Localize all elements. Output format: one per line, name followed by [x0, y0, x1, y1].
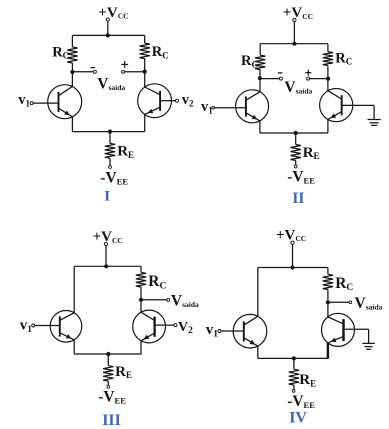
- wire top rail (III): [74, 265, 141, 267]
- wire bottom rail (II): [260, 132, 328, 134]
- terminal +Vcc (III): [104, 242, 107, 245]
- wire to minus terminal (II): [260, 78, 280, 80]
- svg-text:v2: v2: [182, 92, 194, 109]
- wire RC to collector (IV): [327, 290, 329, 317]
- wire right branch to RC (I): [144, 35, 146, 43]
- minus sign (II): [278, 72, 282, 74]
- svg-text:Vsaída: Vsaída: [171, 292, 199, 309]
- svg-text:Vsaída: Vsaída: [284, 79, 312, 96]
- plus sign (II): [305, 70, 311, 76]
- wire left branch collector (III): [73, 266, 75, 313]
- wire left emitter (I): [71, 117, 73, 132]
- svg-text:IV: IV: [289, 410, 307, 427]
- wire RE to Vee terminal (II): [295, 161, 297, 166]
- resistor RC (IV): [323, 274, 333, 289]
- svg-text:RC: RC: [152, 44, 169, 60]
- junction emitters (I): [108, 130, 112, 134]
- resistor RE (I): [105, 143, 115, 158]
- wire right emitter (I): [144, 114, 146, 131]
- wire Vcc stem (IV): [292, 244, 294, 267]
- wire right RC to collector (II): [327, 66, 329, 91]
- wire left RC to collector (I): [71, 63, 73, 87]
- terminal -Vee (III): [107, 385, 110, 388]
- svg-text:+VCC: +VCC: [283, 5, 313, 21]
- svg-text:v1: v1: [20, 317, 33, 335]
- junction output node (IV): [326, 300, 330, 304]
- svg-text:-VEE: -VEE: [100, 170, 128, 187]
- wire right branch to RC (IV): [327, 268, 329, 275]
- terminal Vsaida minus (I): [93, 70, 96, 73]
- wire RE to Vee terminal (IV): [293, 385, 295, 390]
- resistor RC right (II): [323, 52, 333, 66]
- junction Vcc-rail (I): [106, 33, 110, 37]
- terminal v1 (III): [32, 324, 35, 327]
- svg-text:v1: v1: [201, 99, 213, 116]
- svg-text:+VCC: +VCC: [276, 228, 306, 244]
- terminal v2 (III): [174, 324, 177, 327]
- svg-text:RC: RC: [335, 275, 353, 293]
- svg-text:RC: RC: [148, 273, 166, 291]
- resistor RE (II): [291, 145, 301, 161]
- terminal +Vcc (II): [293, 19, 296, 22]
- wire bottom rail (IV): [258, 357, 329, 359]
- terminal v2 (I): [176, 99, 179, 102]
- svg-text:RC: RC: [335, 50, 352, 66]
- junction right collector node (II): [326, 77, 330, 81]
- terminal Vsaida (IV): [349, 301, 352, 304]
- svg-text:v1: v1: [18, 92, 30, 109]
- svg-text:+VCC: +VCC: [98, 5, 128, 21]
- terminal -Vee (I): [109, 166, 112, 169]
- svg-text:II: II: [292, 190, 304, 207]
- wire rail to RE (II): [295, 133, 297, 145]
- junction emitters (IV): [292, 356, 296, 360]
- junction left collector node (I): [70, 70, 74, 74]
- transistor Q2 (II): [320, 89, 353, 122]
- svg-text:I: I: [104, 188, 110, 204]
- ground (IV): [362, 329, 374, 349]
- svg-text:RE: RE: [115, 364, 132, 380]
- wire right emitter (II): [327, 120, 329, 134]
- wire Vcc stem (I): [107, 21, 109, 35]
- wire rail to RE (IV): [293, 358, 295, 369]
- svg-text:RC: RC: [241, 53, 258, 69]
- svg-text:Vsaída: Vsaída: [97, 75, 125, 92]
- terminal +Vcc (I): [106, 18, 109, 21]
- transistor Q1 (III): [35, 311, 82, 343]
- svg-text:V2: V2: [178, 320, 193, 336]
- terminal Vsaida (III): [167, 298, 170, 301]
- svg-text:Vsaída: Vsaída: [355, 295, 383, 312]
- transistor Q1 (II): [215, 90, 269, 123]
- terminal +Vcc (IV): [291, 241, 294, 244]
- wire left emitter (II): [259, 121, 261, 133]
- junction right collector node (I): [143, 70, 147, 74]
- terminal -Vee (IV): [292, 390, 295, 393]
- svg-text:RE: RE: [117, 144, 134, 160]
- resistor RC left (II): [255, 55, 265, 69]
- wire Vcc stem (II): [293, 22, 295, 44]
- wire left branch collector (IV): [257, 268, 259, 317]
- svg-text:-VEE: -VEE: [98, 388, 126, 405]
- wire right emitter (III): [140, 341, 142, 354]
- wire left emitter (III): [73, 340, 75, 354]
- junction Vcc-rail (III): [104, 264, 108, 268]
- resistor RC (III): [136, 272, 146, 287]
- terminal Vsaida plus (I): [122, 70, 125, 73]
- svg-text:-VEE: -VEE: [287, 169, 315, 186]
- wire right branch to RC (II): [327, 44, 329, 52]
- wire to minus terminal (I): [72, 71, 93, 73]
- terminal v1 (I): [30, 102, 33, 105]
- wire to plus terminal (II): [310, 78, 329, 80]
- junction Vcc-rail (II): [292, 42, 296, 46]
- transistor Q1 (I): [33, 85, 82, 119]
- svg-text:RE: RE: [303, 145, 320, 161]
- wire Vcc stem (III): [105, 246, 107, 267]
- wire top rail (IV): [258, 267, 328, 269]
- wire to Vsaida terminal (III): [141, 299, 167, 301]
- transistor Q2 (III): [133, 310, 174, 343]
- wire left branch to RC (I): [71, 35, 73, 47]
- wire bottom rail (I): [72, 131, 144, 133]
- junction output node (III): [139, 298, 143, 302]
- wire rail to RE (III): [107, 354, 109, 366]
- wire to plus terminal (I): [125, 71, 145, 73]
- junction left collector node (II): [258, 76, 262, 80]
- wire RE to Vee terminal (I): [109, 158, 111, 165]
- wire top rail (I): [72, 34, 144, 36]
- transistor Q2 (IV): [322, 313, 355, 346]
- svg-text:RC: RC: [52, 45, 69, 61]
- wire base to ground (IV): [344, 328, 369, 330]
- wire base to ground (II): [342, 104, 374, 106]
- wire right RC to collector (I): [144, 59, 146, 87]
- wire to Vsaida terminal (IV): [328, 301, 349, 303]
- junction Vcc-rail (IV): [290, 265, 294, 269]
- svg-text:v1: v1: [206, 322, 219, 340]
- transistor Q2 (I): [138, 84, 176, 118]
- transistor Q1 (IV): [221, 314, 267, 348]
- minus sign (I): [91, 67, 95, 69]
- ground (II): [368, 105, 381, 125]
- wire RC to collector (III): [140, 287, 142, 312]
- wire bottom rail (III): [74, 353, 141, 355]
- svg-text:-VEE: -VEE: [287, 393, 315, 410]
- junction emitters (II): [294, 131, 298, 135]
- wire left branch to RC (II): [259, 44, 261, 56]
- resistor RE (III): [103, 366, 113, 381]
- terminal -Vee (II): [294, 165, 297, 168]
- svg-text:RE: RE: [299, 372, 316, 388]
- wire right branch to RC (III): [140, 266, 142, 272]
- terminal v1 (II): [212, 107, 215, 110]
- plus sign (I): [121, 61, 128, 68]
- junction emitters (III): [106, 352, 110, 356]
- terminal Vsaida minus (II): [279, 77, 282, 80]
- wire rail to RE (I): [109, 132, 111, 144]
- wire left RC to collector (II): [259, 70, 261, 92]
- svg-text:+VCC: +VCC: [93, 229, 123, 245]
- resistor RE (IV): [289, 369, 299, 385]
- resistor RC left (I): [67, 47, 77, 63]
- wire right emitter (IV): [327, 343, 329, 359]
- terminal v1 (IV): [218, 330, 221, 333]
- wire left emitter (IV): [257, 346, 259, 358]
- wire top rail (II): [260, 43, 328, 45]
- svg-text:III: III: [102, 412, 121, 429]
- wire RE to Vee terminal (III): [107, 381, 109, 385]
- resistor RC right (I): [140, 43, 150, 59]
- terminal Vsaida plus (II): [307, 77, 310, 80]
